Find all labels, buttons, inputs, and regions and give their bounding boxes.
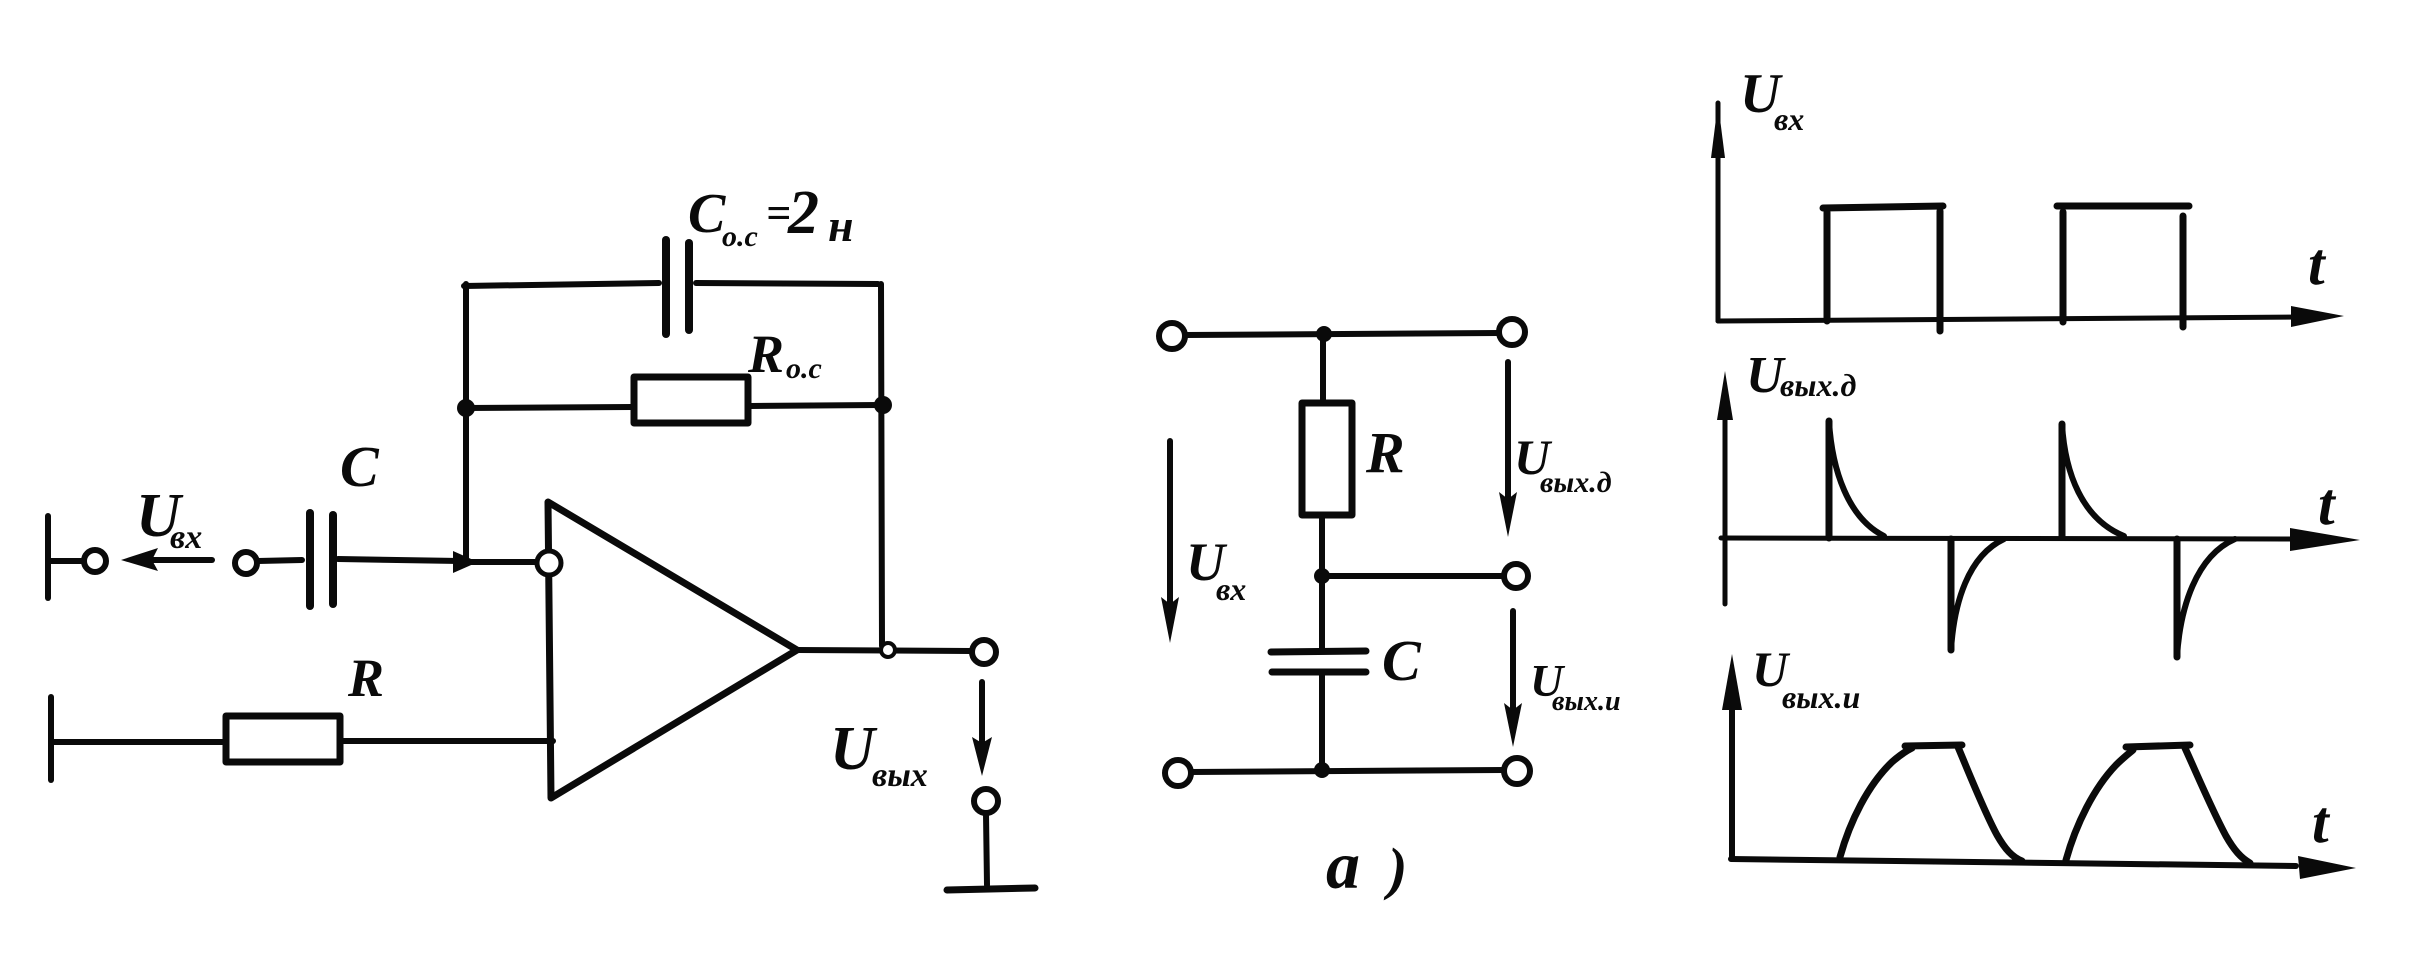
svg-text:t: t	[2312, 789, 2331, 855]
plot2 negative spike 2	[2174, 539, 2181, 657]
node middle junction	[1314, 568, 1330, 584]
svg-text:C: C	[688, 183, 726, 245]
plot2 positive spike 2	[2059, 424, 2066, 537]
svg-text:вых.и: вых.и	[1552, 686, 1621, 717]
terminal circle top-right	[1499, 319, 1525, 345]
plot3 U_vyx.i vertical axis	[1729, 700, 1735, 859]
resistor R (lower input)	[226, 716, 340, 762]
svg-text:R: R	[747, 324, 784, 384]
wire junction to R_o.c	[466, 407, 632, 408]
svg-text:вых.д: вых.д	[1540, 466, 1612, 499]
svg-text:t: t	[2318, 471, 2337, 537]
plot2 positive spike 1	[1826, 421, 1833, 538]
op-amp input circle (inverting)	[537, 551, 561, 575]
svg-text:C: C	[340, 434, 380, 499]
svg-text:о.с: о.с	[786, 352, 822, 385]
plot1 U_vx vertical axis	[1716, 103, 1721, 321]
terminal circle (after arrow)	[235, 552, 257, 574]
svg-text:t: t	[2308, 231, 2327, 297]
node bottom junction	[1314, 762, 1330, 778]
wire middle node to capacitor C	[1319, 576, 1325, 650]
wire R_o.c to right junction	[750, 405, 880, 406]
node (output junction small circle)	[881, 643, 895, 657]
terminal circle above ground	[974, 789, 998, 813]
svg-text:вх: вх	[1774, 101, 1804, 137]
feedback top wire left segment	[464, 283, 659, 286]
svg-text:C: C	[1382, 628, 1422, 693]
svg-text:вх: вх	[1216, 571, 1246, 607]
terminal circle top-left	[1159, 323, 1185, 349]
plot3 hump 1 (charge/discharge)	[1840, 748, 1912, 857]
plot1 pulse 1 (square)	[1824, 212, 1831, 321]
node top junction	[1316, 326, 1332, 342]
terminal circle bottom-right	[1504, 758, 1530, 784]
U_vx arrow (input voltage, pointing left)	[150, 557, 212, 563]
svg-text:U: U	[830, 715, 878, 783]
U_vx arrow (middle input)	[1167, 441, 1173, 605]
terminal circle (input left)	[84, 550, 106, 572]
plot2 horizontal axis t	[1721, 538, 2300, 539]
svg-text:вых.и: вых.и	[1782, 679, 1860, 715]
svg-text:2: 2	[787, 179, 819, 247]
resistor R (vertical)	[1302, 403, 1352, 515]
middle wire to terminal	[1322, 573, 1502, 579]
lower input terminal tick	[48, 697, 54, 780]
U_vyx.i arrow (across C)	[1510, 611, 1516, 712]
U_vyx.d arrow (across R)	[1505, 362, 1511, 500]
svg-text:а: а	[1326, 827, 1360, 903]
bottom wire	[1190, 770, 1504, 772]
svg-text:о.с: о.с	[722, 220, 758, 253]
output terminal circle	[972, 640, 996, 664]
wire right vertical (feedback to output)	[881, 284, 882, 646]
feedback top wire right segment	[696, 283, 878, 284]
svg-text:R: R	[347, 648, 384, 708]
plot3 horizontal axis t	[1731, 859, 2296, 866]
wire node A to op-amp input circle	[470, 559, 535, 565]
output arrow down	[979, 682, 985, 744]
terminal circle bottom-left	[1165, 760, 1191, 786]
wire resistor R to op-amp	[341, 738, 553, 744]
wire top junction to resistor R	[1320, 334, 1326, 403]
plot1 horizontal axis t	[1718, 317, 2300, 321]
svg-text:н: н	[828, 200, 854, 251]
capacitor C (middle circuit)	[1271, 651, 1366, 652]
wire terminal to capacitor C	[258, 560, 302, 561]
svg-text:): )	[1383, 836, 1407, 901]
plot1 pulse 2 (square)	[2060, 212, 2067, 322]
ground	[986, 814, 987, 885]
svg-text:вых: вых	[872, 757, 928, 794]
node (feedback right junction)	[874, 396, 892, 414]
plot2 U_vyx.d vertical axis	[1723, 400, 1728, 604]
wire lower input to resistor R	[52, 739, 226, 745]
capacitor C (input)	[306, 513, 314, 606]
wire capacitor to bottom	[1319, 673, 1325, 770]
capacitor C_o.c (feedback)	[662, 240, 670, 334]
resistor R_o.c (feedback)	[634, 377, 748, 423]
input terminal tick (top-left port)	[45, 516, 51, 598]
wire capacitor to node A	[338, 559, 460, 561]
node (feedback left junction)	[457, 399, 475, 417]
top wire	[1186, 333, 1499, 335]
plot3 hump 2 (charge/discharge)	[2066, 750, 2133, 860]
wire tick to terminal circle	[50, 558, 82, 564]
svg-text:вых.д: вых.д	[1780, 367, 1857, 403]
terminal circle middle-right	[1504, 564, 1528, 588]
node A junction dot (inverting input node)	[453, 551, 478, 573]
output wire from op-amp apex	[797, 650, 971, 651]
svg-text:вх: вх	[170, 519, 202, 556]
plot2 negative spike 1	[1948, 539, 1955, 650]
svg-text:R: R	[1365, 420, 1405, 485]
wire node A up to feedback (left vertical)	[463, 284, 469, 560]
op-amp U1 triangle	[548, 502, 797, 798]
wire resistor to middle node	[1319, 515, 1325, 576]
